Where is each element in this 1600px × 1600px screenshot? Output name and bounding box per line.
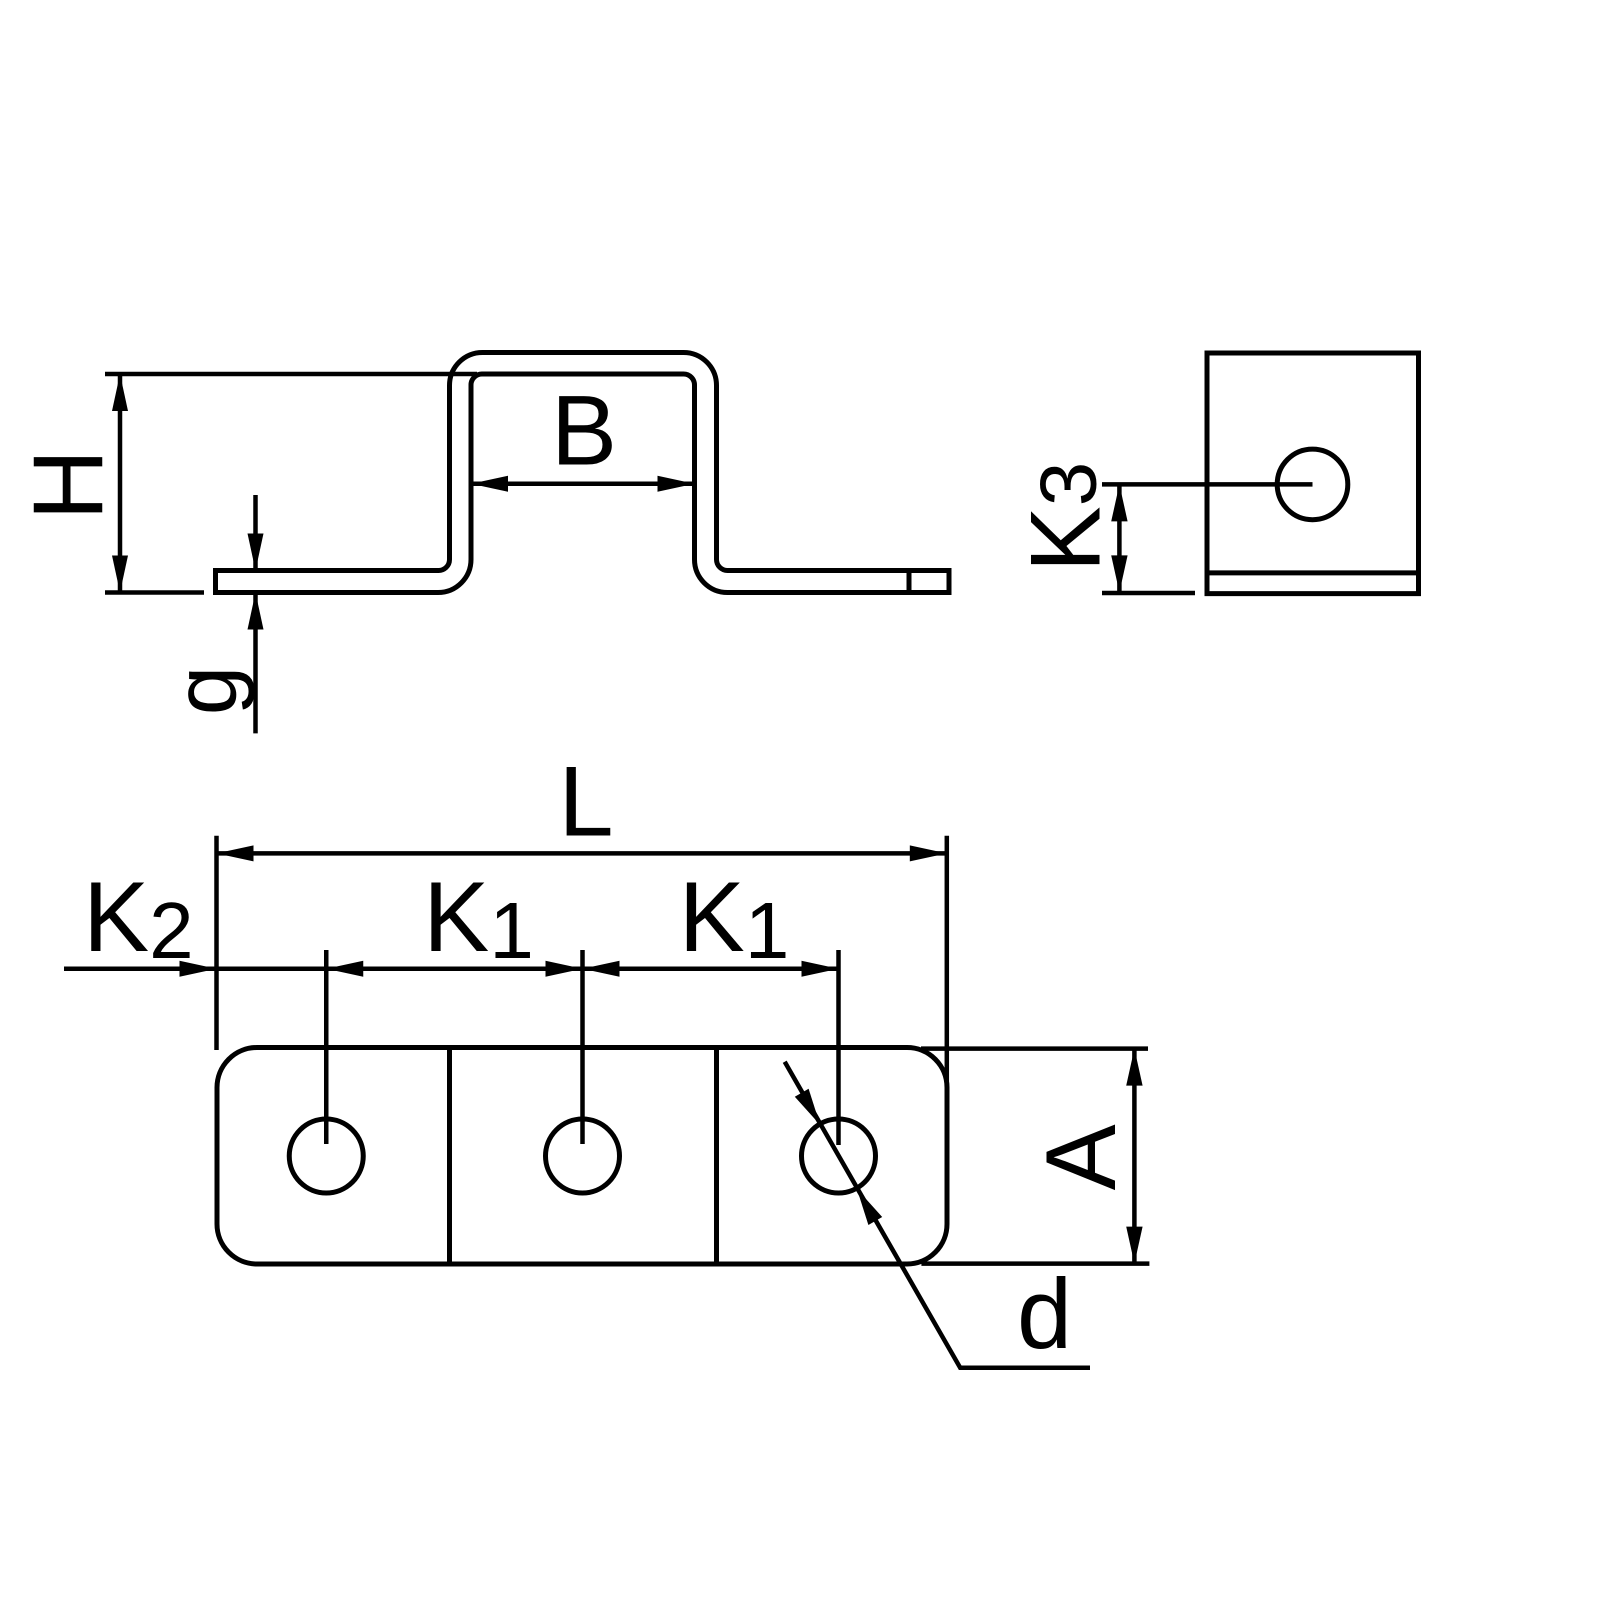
g arrow upper <box>248 534 264 571</box>
K3 dim line <box>1117 484 1122 592</box>
plan bend line right <box>714 1048 719 1265</box>
H dim: bottom extension line <box>105 590 204 595</box>
left flange end cap <box>213 568 218 595</box>
chain dim line K2-K1-K1 <box>64 967 839 972</box>
end view box <box>1207 353 1419 594</box>
B dim line <box>471 482 695 487</box>
A dim line <box>1132 1049 1137 1264</box>
hole 2 centerline <box>580 950 585 1144</box>
A arrow bottom <box>1126 1227 1142 1264</box>
hole 3 centerline <box>836 950 841 1145</box>
hat profile side view: outer sheet surface <box>216 353 950 571</box>
K1 arrows at hole2 <box>546 961 583 977</box>
H dim line <box>118 374 123 593</box>
K2 arrow <box>180 961 217 977</box>
svg-text:K3: K3 <box>1010 462 1121 573</box>
L right extension <box>945 836 950 1092</box>
A bottom extension <box>921 1261 1149 1266</box>
end view hole <box>1277 449 1348 520</box>
svg-text:B: B <box>551 375 617 486</box>
plan bend line left <box>447 1048 452 1265</box>
A top extension <box>921 1046 1148 1051</box>
end view flange line <box>1207 570 1419 575</box>
L arrow left <box>217 845 254 861</box>
plan hole 2 <box>546 1119 620 1193</box>
H dim: top extension line <box>105 372 477 377</box>
A arrow top <box>1126 1049 1142 1086</box>
K3 leader from hole center <box>1102 482 1313 487</box>
svg-text:L: L <box>558 746 613 857</box>
K3 arrow bottom <box>1111 555 1127 592</box>
B arrow right <box>658 476 695 492</box>
g arrow lower <box>248 593 264 630</box>
K1 arrow at hole1 <box>326 961 363 977</box>
svg-text:K1: K1 <box>423 861 534 975</box>
H arrow bottom <box>112 556 128 593</box>
d arrow upper <box>795 1089 820 1125</box>
g dim lower line <box>253 593 258 734</box>
K3 bottom extension <box>1102 591 1195 596</box>
svg-text:A: A <box>1025 1124 1136 1190</box>
plan hole 3 <box>802 1119 876 1193</box>
svg-text:d: d <box>1017 1258 1072 1369</box>
K3 arrow top <box>1111 484 1127 521</box>
L left extension <box>214 836 219 1050</box>
B arrow left <box>471 476 508 492</box>
svg-text:g: g <box>155 666 255 716</box>
d leader diagonal <box>785 1062 1090 1368</box>
plan hole 1 <box>289 1119 363 1193</box>
plan view outline <box>217 1048 947 1265</box>
right flange tick <box>907 571 912 593</box>
H arrow top <box>112 374 128 411</box>
svg-text:K1: K1 <box>679 861 790 975</box>
hole 1 centerline <box>324 950 329 1144</box>
hat profile side view: inner sheet surface <box>216 374 950 593</box>
d arrow lower <box>857 1189 882 1225</box>
right flange end cap <box>947 568 952 595</box>
L arrow right <box>910 845 947 861</box>
L dim line <box>217 851 947 856</box>
K1 arrow at hole3 <box>802 961 839 977</box>
svg-text:H: H <box>12 449 123 521</box>
svg-text:K2: K2 <box>83 861 194 975</box>
g dim upper line <box>253 495 258 571</box>
